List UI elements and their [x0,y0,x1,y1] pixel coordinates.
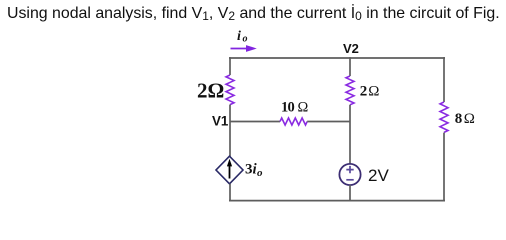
svg-text:8: 8 [455,111,463,127]
svg-text:V1: V1 [212,113,229,128]
wire bottom [229,200,445,202]
wire left vertical upper segment [229,57,231,75]
wire V1 horizontal left segment [230,121,280,123]
svg-text:V2: V2 [343,41,359,56]
label 2V [368,166,389,185]
wire right vertical lower segment [443,133,445,202]
label 3io [245,162,263,180]
wire middle vertical upper segment [349,57,351,76]
node V2 label [343,41,359,56]
wire left vertical: dependent source to bottom [229,184,231,202]
svg-text:10: 10 [281,100,294,116]
svg-text:Ω: Ω [464,111,475,127]
voltage source 2V (circle) [339,164,360,185]
svg-text:Ω: Ω [368,84,379,100]
svg-text:2: 2 [360,84,368,100]
wire V1 horizontal right segment to middle node [307,121,350,123]
svg-text:o: o [243,34,248,45]
label io [237,29,248,45]
svg-text:2V: 2V [368,166,389,185]
resistor 2ohm middle (vertical zigzag) [346,76,354,105]
svg-text:o: o [257,167,263,179]
resistor 10ohm (horizontal zigzag) [280,118,307,125]
wire right vertical upper segment [443,57,445,102]
svg-text:2Ω: 2Ω [197,79,224,103]
label 2ohm middle [360,84,380,100]
wire left vertical: node V1 to dependent source [229,122,231,157]
title text [7,5,500,23]
wire middle vertical: voltage source to bottom [349,185,351,201]
svg-text:3i: 3i [245,162,258,178]
label 2ohm left [197,79,224,103]
svg-text:i: i [237,29,241,44]
wire middle vertical: resistor to voltage source [349,105,351,164]
label 10ohm [281,100,309,116]
label 8ohm [455,111,475,127]
resistor 8ohm (vertical zigzag) [440,102,448,132]
dependent current source 3io (diamond) [216,156,243,184]
svg-text:Ω: Ω [298,100,309,116]
node V1 label [212,113,229,128]
current arrow io [231,45,257,52]
wire left vertical: resistor to node V1 [229,105,231,122]
resistor 2ohm left (vertical zigzag) [226,75,234,105]
wire top: node at top-left corner to top-right corner [229,57,445,59]
